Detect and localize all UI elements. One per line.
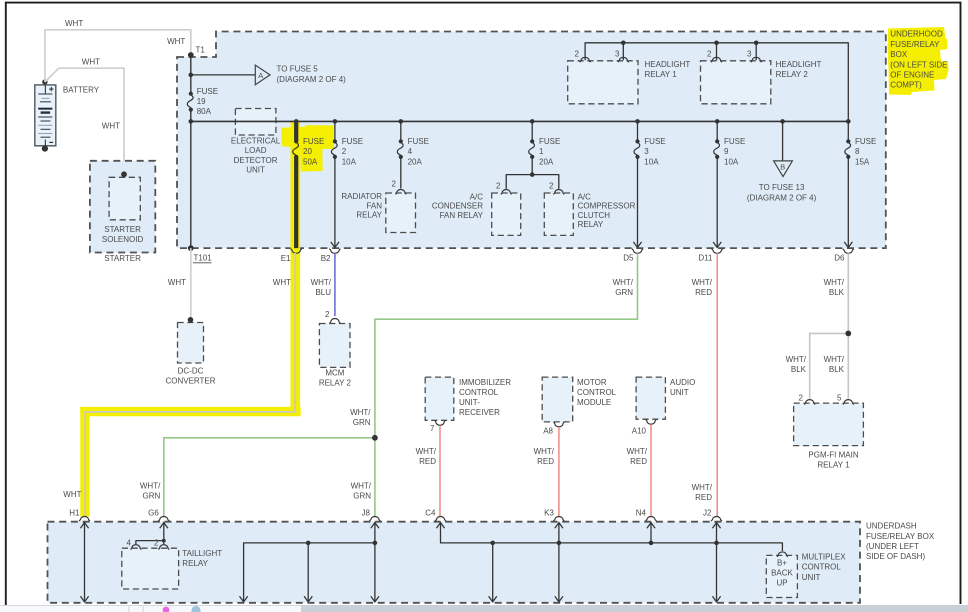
wire WHT/BLK D6 to PGM-FI relay xyxy=(786,253,852,399)
svg-text:10A: 10A xyxy=(724,157,739,166)
wire H1 internal xyxy=(84,522,86,601)
svg-text:A8: A8 xyxy=(543,427,553,436)
svg-text:D6: D6 xyxy=(834,254,845,263)
svg-text:BOX: BOX xyxy=(890,50,908,59)
taillight relay xyxy=(122,539,222,590)
fuse 1 20A xyxy=(529,137,561,166)
a/c compressor clutch relay xyxy=(544,182,635,236)
wire: underdash right bus xyxy=(441,522,783,602)
svg-text:FUSE: FUSE xyxy=(342,137,363,146)
svg-text:FUSE: FUSE xyxy=(644,137,665,146)
wire T1 trunk down to T101 xyxy=(190,55,192,94)
svg-text:2: 2 xyxy=(549,182,554,191)
svg-text:CLUTCH: CLUTCH xyxy=(578,211,611,220)
svg-text:T101: T101 xyxy=(194,254,213,263)
svg-text:RELAY 1: RELAY 1 xyxy=(817,461,850,470)
svg-text:15A: 15A xyxy=(855,157,870,166)
wire fuse3 to D5 xyxy=(637,157,639,248)
svg-text:8: 8 xyxy=(855,147,860,156)
svg-text:WHT/: WHT/ xyxy=(351,482,372,491)
svg-text:J2: J2 xyxy=(703,508,712,517)
underdash fuse/relay box outline xyxy=(48,522,861,603)
svg-text:UNIT: UNIT xyxy=(802,573,821,582)
audio unit xyxy=(632,377,696,435)
svg-text:RELAY: RELAY xyxy=(356,211,382,220)
fuse 9 10A xyxy=(714,137,746,166)
svg-text:DC-DC: DC-DC xyxy=(178,366,204,375)
svg-text:10A: 10A xyxy=(644,157,659,166)
label WHT/GRN G6 xyxy=(140,482,161,501)
fuse 3 10A xyxy=(634,137,666,166)
svg-text:(DIAGRAM 2 OF 4): (DIAGRAM 2 OF 4) xyxy=(747,193,817,202)
svg-text:WHT: WHT xyxy=(273,278,291,287)
svg-text:UNIT-: UNIT- xyxy=(459,398,480,407)
wire WHT/GRN D5 to G6/J8 xyxy=(164,253,638,517)
label WHT/GRN J8 xyxy=(351,482,372,501)
svg-text:RED: RED xyxy=(630,457,647,466)
svg-text:50A: 50A xyxy=(303,157,318,166)
svg-text:PGM-FI MAIN: PGM-FI MAIN xyxy=(808,451,858,460)
starter solenoid xyxy=(102,171,144,244)
svg-text:GRN: GRN xyxy=(143,492,161,501)
label WHT at E1 wire xyxy=(273,278,291,287)
highlight: underhood box title (yellow highlighter) xyxy=(888,27,949,95)
label: underdash box title xyxy=(866,522,935,562)
svg-text:RELAY 1: RELAY 1 xyxy=(645,70,678,79)
node T1 xyxy=(188,46,205,58)
connector C4 xyxy=(425,508,446,528)
svg-text:RED: RED xyxy=(419,457,436,466)
svg-text:20: 20 xyxy=(303,147,312,156)
svg-text:CONTROL: CONTROL xyxy=(802,563,842,572)
connector H1 xyxy=(69,508,90,528)
symbol: triangle A (to fuse 5) xyxy=(255,65,346,85)
svg-text:7: 7 xyxy=(430,424,435,433)
svg-text:WHT/: WHT/ xyxy=(692,278,713,287)
svg-text:A/C: A/C xyxy=(470,192,484,201)
wire WHT/RED D11 to J2 xyxy=(692,253,718,517)
svg-text:D5: D5 xyxy=(623,254,634,263)
connector D6 xyxy=(834,242,854,263)
svg-text:WHT/: WHT/ xyxy=(534,447,555,456)
svg-text:3: 3 xyxy=(615,50,620,59)
svg-text:ELECTRICAL: ELECTRICAL xyxy=(231,137,281,146)
svg-text:RADIATOR: RADIATOR xyxy=(341,192,382,201)
svg-text:AUDIO: AUDIO xyxy=(670,378,695,387)
svg-text:MULTIPLEX: MULTIPLEX xyxy=(802,553,847,562)
svg-text:SIDE OF DASH): SIDE OF DASH) xyxy=(866,552,925,561)
svg-text:T1: T1 xyxy=(196,46,206,55)
svg-text:FAN: FAN xyxy=(366,201,382,210)
svg-text:STARTER: STARTER xyxy=(104,254,141,263)
svg-text:N4: N4 xyxy=(636,508,647,517)
svg-text:TO FUSE 5: TO FUSE 5 xyxy=(277,65,319,74)
fuse 2 10A xyxy=(331,137,363,166)
svg-text:HEADLIGHT: HEADLIGHT xyxy=(645,60,691,69)
starter (outer box) xyxy=(90,161,155,263)
svg-text:WHT/: WHT/ xyxy=(692,483,713,492)
svg-text:2: 2 xyxy=(496,182,501,191)
battery xyxy=(35,79,100,151)
underhood fuse/relay box outline xyxy=(177,32,886,249)
svg-text:COMPRESSOR: COMPRESSOR xyxy=(578,202,636,211)
svg-text:FUSE: FUSE xyxy=(724,137,745,146)
svg-text:RED: RED xyxy=(695,493,712,502)
wire WHT T101 to DC-DC converter xyxy=(168,248,191,320)
svg-text:(DIAGRAM 2 OF 4): (DIAGRAM 2 OF 4) xyxy=(277,75,347,84)
svg-text:RED: RED xyxy=(695,288,712,297)
svg-text:2: 2 xyxy=(575,50,580,59)
label: underhood box title xyxy=(890,30,947,90)
wire: thick black fuse20 to E1 xyxy=(294,157,298,248)
svg-text:HEADLIGHT: HEADLIGHT xyxy=(776,60,822,69)
svg-text:A10: A10 xyxy=(632,427,647,436)
svg-text:MOTOR: MOTOR xyxy=(577,378,607,387)
symbol: triangle B (to fuse 13) xyxy=(747,161,817,202)
svg-text:4: 4 xyxy=(127,539,132,548)
wire WHT/RED immobilizer to C4 xyxy=(416,426,440,518)
svg-text:B+: B+ xyxy=(777,559,787,568)
connector N4 xyxy=(636,508,657,528)
connector D5 xyxy=(623,242,643,263)
svg-text:E1: E1 xyxy=(281,254,291,263)
immobilizer control unit-receiver xyxy=(425,377,511,433)
svg-text:FUSE/RELAY BOX: FUSE/RELAY BOX xyxy=(866,532,935,541)
svg-text:2: 2 xyxy=(392,180,397,189)
svg-text:MODULE: MODULE xyxy=(577,398,611,407)
connector E1 xyxy=(281,249,302,263)
wire: main bus xyxy=(191,120,849,122)
svg-text:19: 19 xyxy=(197,97,206,106)
svg-text:CONDENSER: CONDENSER xyxy=(432,202,483,211)
wire WHT/BLU B2 to MCM relay 2 xyxy=(311,253,335,316)
wire headlight relay feed xyxy=(585,41,848,122)
connector G6 xyxy=(148,508,169,528)
svg-text:WHT/: WHT/ xyxy=(786,355,807,364)
wire fuse8 to D6 xyxy=(847,157,849,248)
svg-text:CONTROL: CONTROL xyxy=(577,388,617,397)
svg-text:WHT/: WHT/ xyxy=(627,447,648,456)
svg-text:FUSE: FUSE xyxy=(197,87,218,96)
wire fuse2 to B2 xyxy=(334,157,336,248)
a/c condenser fan relay xyxy=(432,182,521,236)
svg-text:B2: B2 xyxy=(321,254,331,263)
svg-text:10A: 10A xyxy=(342,157,357,166)
svg-text:J8: J8 xyxy=(361,508,370,517)
svg-text:OF ENGINE: OF ENGINE xyxy=(890,71,934,80)
svg-text:DETECTOR: DETECTOR xyxy=(234,156,278,165)
svg-text:UNIT: UNIT xyxy=(246,166,265,175)
b+ back up (multiplex control unit) xyxy=(766,552,846,598)
pgm-fi main relay 1 xyxy=(794,393,864,469)
svg-text:WHT: WHT xyxy=(63,490,81,499)
svg-text:2: 2 xyxy=(799,393,804,402)
svg-text:1: 1 xyxy=(539,147,544,156)
svg-text:20A: 20A xyxy=(408,157,423,166)
svg-text:UNDERHOOD: UNDERHOOD xyxy=(890,30,943,39)
arrow left bus drops xyxy=(240,596,313,602)
wire WHT core inside yellow: E1 to H1 xyxy=(85,253,295,517)
svg-text:CONVERTER: CONVERTER xyxy=(165,376,215,385)
wire WHT battery to starter solenoid xyxy=(45,58,124,173)
connector J8 xyxy=(361,508,380,528)
svg-text:RELAY: RELAY xyxy=(578,220,604,229)
svg-text:WHT/: WHT/ xyxy=(140,482,161,491)
svg-text:B: B xyxy=(780,162,785,171)
wire WHT/RED audio unit to N4 xyxy=(627,424,651,517)
svg-text:WHT: WHT xyxy=(65,19,83,28)
dc-dc converter xyxy=(165,317,215,385)
svg-text:A/C: A/C xyxy=(578,192,592,201)
svg-text:RECEIVER: RECEIVER xyxy=(459,408,500,417)
arrow H1 bottom xyxy=(80,596,88,602)
svg-text:TAILLIGHT: TAILLIGHT xyxy=(182,549,222,558)
fuse 4 20A xyxy=(397,137,429,166)
wire fuse4 to radiator fan relay pin 2 xyxy=(400,157,402,189)
wire WHT battery to T1 xyxy=(45,19,191,82)
fuse 19 80A xyxy=(187,87,218,116)
motor control module xyxy=(542,377,616,435)
wire G6 to taillight relay xyxy=(136,522,166,544)
connector J2 xyxy=(703,508,722,528)
fuse 20 50A (highlighted) xyxy=(293,121,325,248)
svg-text:K3: K3 xyxy=(544,508,554,517)
node: junction to fuse 5 arrow xyxy=(189,73,194,78)
svg-text:LOAD: LOAD xyxy=(245,146,267,155)
svg-text:MCM: MCM xyxy=(325,369,344,378)
node T101 xyxy=(188,245,212,263)
svg-text:WHT/: WHT/ xyxy=(613,278,634,287)
svg-text:WHT: WHT xyxy=(82,58,100,67)
svg-text:WHT: WHT xyxy=(168,278,186,287)
svg-text:3: 3 xyxy=(644,147,649,156)
connector K3 xyxy=(544,508,564,528)
svg-text:RELAY: RELAY xyxy=(182,559,208,568)
headlight relay 1 xyxy=(568,50,691,104)
svg-text:(ON LEFT SIDE: (ON LEFT SIDE xyxy=(890,60,947,69)
wire stubs bus to fuses xyxy=(335,121,848,141)
svg-text:FUSE: FUSE xyxy=(303,137,324,146)
svg-text:UNDERDASH: UNDERDASH xyxy=(866,522,917,531)
wire: underdash left bus xyxy=(244,541,378,602)
svg-text:80A: 80A xyxy=(197,107,212,116)
svg-text:BLK: BLK xyxy=(791,365,807,374)
svg-text:FUSE: FUSE xyxy=(855,137,876,146)
svg-text:20A: 20A xyxy=(539,157,554,166)
svg-text:4: 4 xyxy=(408,147,413,156)
svg-text:FUSE/RELAY: FUSE/RELAY xyxy=(890,40,940,49)
svg-text:FAN RELAY: FAN RELAY xyxy=(440,211,484,220)
svg-text:GRN: GRN xyxy=(615,288,633,297)
svg-text:WHT/: WHT/ xyxy=(416,447,437,456)
svg-text:C4: C4 xyxy=(425,508,436,517)
svg-text:H1: H1 xyxy=(69,508,80,517)
svg-text:(UNDER LEFT: (UNDER LEFT xyxy=(866,542,919,551)
fuse 8 15A xyxy=(845,137,877,166)
svg-text:3: 3 xyxy=(747,50,752,59)
svg-text:SOLENOID: SOLENOID xyxy=(102,235,144,244)
svg-text:BLU: BLU xyxy=(315,288,331,297)
wire to triangle A xyxy=(191,74,256,76)
mcm relay 2 xyxy=(319,310,352,388)
radiator fan relay xyxy=(341,180,415,233)
svg-text:COMPT): COMPT) xyxy=(890,81,922,90)
svg-text:IMMOBILIZER: IMMOBILIZER xyxy=(459,378,511,387)
svg-text:CONTROL: CONTROL xyxy=(459,388,499,397)
svg-text:RED: RED xyxy=(537,457,554,466)
label WHT H1 xyxy=(63,490,81,499)
svg-text:TO FUSE 13: TO FUSE 13 xyxy=(759,183,805,192)
bottom taskbar sliver xyxy=(0,605,968,612)
svg-text:GRN: GRN xyxy=(353,418,371,427)
svg-text:FUSE: FUSE xyxy=(408,137,429,146)
svg-text:2: 2 xyxy=(325,310,330,319)
wire bus to triangle B xyxy=(782,121,784,160)
svg-text:G6: G6 xyxy=(148,508,159,517)
svg-text:9: 9 xyxy=(724,147,729,156)
svg-text:WHT: WHT xyxy=(102,122,120,131)
svg-text:RELAY 2: RELAY 2 xyxy=(319,379,352,388)
electrical load detector unit xyxy=(231,109,281,175)
highlight: fuse 20 circuit (yellow highlighter) xyxy=(80,122,334,517)
connector B2 xyxy=(321,242,341,263)
svg-text:UNIT: UNIT xyxy=(670,388,689,397)
svg-text:RELAY 2: RELAY 2 xyxy=(776,70,809,79)
wire J8 internal xyxy=(371,522,379,602)
svg-text:WHT/: WHT/ xyxy=(350,408,371,417)
svg-text:WHT: WHT xyxy=(167,37,185,46)
svg-text:WHT/: WHT/ xyxy=(824,355,845,364)
svg-text:2: 2 xyxy=(342,147,347,156)
svg-text:BATTERY: BATTERY xyxy=(63,86,100,95)
svg-text:BACK: BACK xyxy=(771,569,793,578)
svg-text:5: 5 xyxy=(837,393,842,402)
bus junction dots xyxy=(189,119,851,124)
svg-text:FUSE: FUSE xyxy=(539,137,560,146)
wire fuse1 split to A/C relays xyxy=(506,157,559,189)
svg-text:2: 2 xyxy=(707,50,712,59)
wire fuse9 to D11 xyxy=(716,157,718,248)
headlight relay 2 xyxy=(701,50,822,104)
svg-text:GRN: GRN xyxy=(353,492,371,501)
connector D11 xyxy=(698,242,722,263)
svg-text:BLK: BLK xyxy=(829,365,845,374)
svg-text:BLK: BLK xyxy=(829,288,845,297)
svg-text:UP: UP xyxy=(776,579,787,588)
svg-text:2: 2 xyxy=(154,539,159,548)
svg-text:WHT/: WHT/ xyxy=(824,278,845,287)
svg-text:STARTER: STARTER xyxy=(104,225,141,234)
wire WHT/RED motor control module to K3 xyxy=(534,427,559,517)
svg-text:D11: D11 xyxy=(698,254,713,263)
svg-text:WHT/: WHT/ xyxy=(311,278,332,287)
